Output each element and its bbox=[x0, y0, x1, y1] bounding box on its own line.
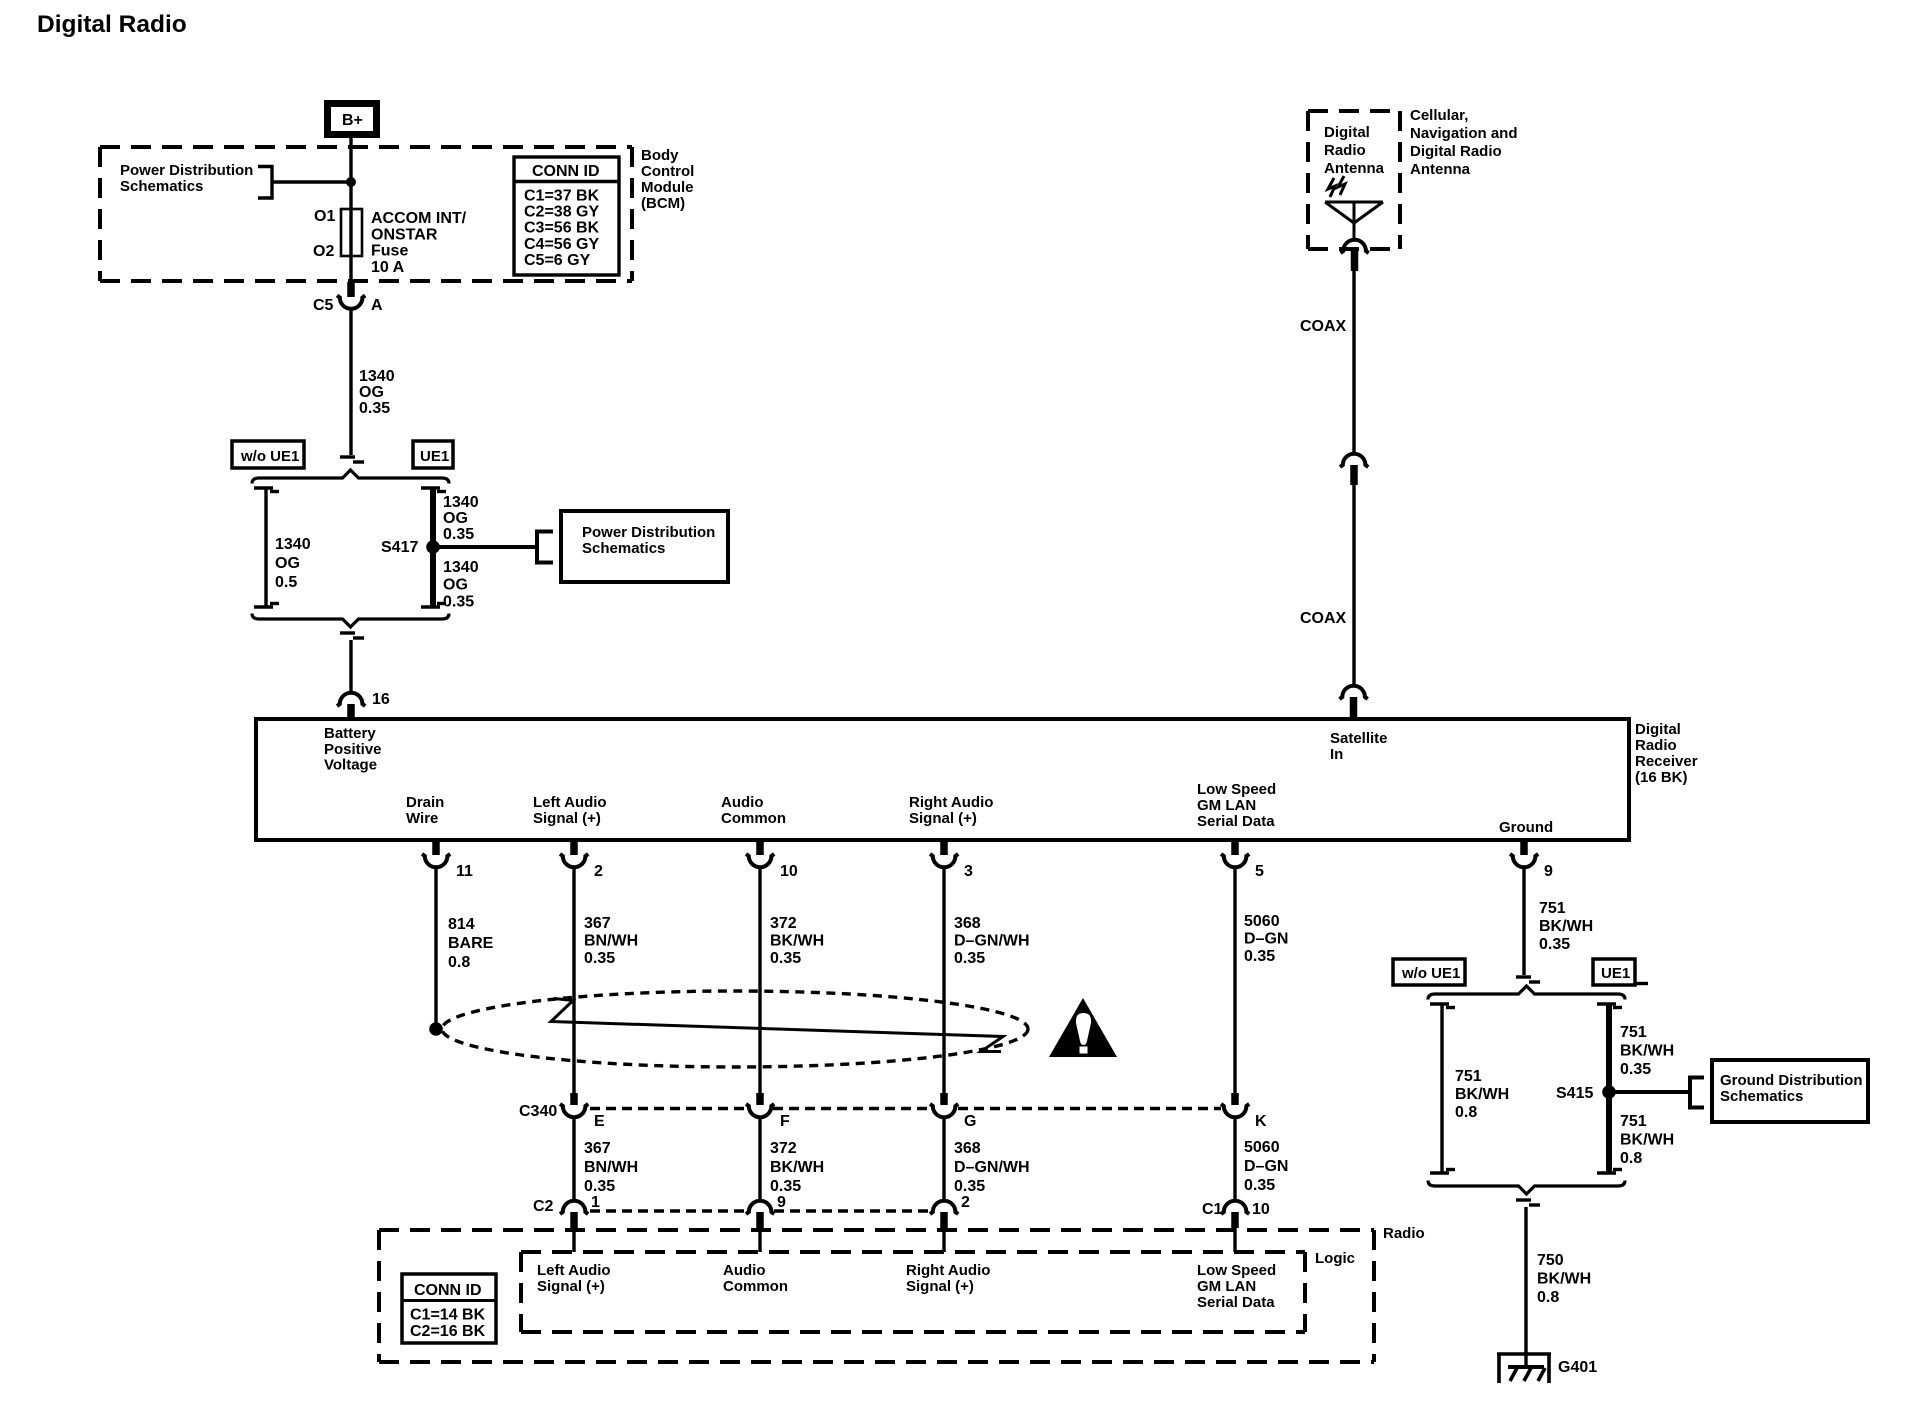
svg-text:Audio: Audio bbox=[723, 1262, 766, 1279]
svg-text:Signal (+): Signal (+) bbox=[909, 810, 977, 827]
svg-text:C2=16 BK: C2=16 BK bbox=[410, 1323, 486, 1340]
svg-text:O1: O1 bbox=[314, 208, 335, 225]
svg-text:D–GN/WH: D–GN/WH bbox=[954, 933, 1030, 950]
wire: S415 to Ground Distribution Schematics bbox=[1609, 1090, 1690, 1094]
svg-text:ACCOM INT/: ACCOM INT/ bbox=[371, 210, 467, 227]
svg-text:0.35: 0.35 bbox=[359, 400, 390, 417]
svg-text:5060: 5060 bbox=[1244, 913, 1280, 930]
branch UE1: wire 1340 OG 0.35 bbox=[421, 488, 446, 607]
wire label bbox=[770, 915, 824, 967]
svg-text:751: 751 bbox=[1455, 1068, 1482, 1085]
label: Audio Common (radio) bbox=[723, 1262, 788, 1295]
svg-text:Signal (+): Signal (+) bbox=[537, 1278, 605, 1295]
wire: S417 to Power Distribution Schematics bbox=[433, 545, 537, 549]
label: Left Audio Signal (+) bbox=[533, 794, 607, 827]
svg-text:ONSTAR: ONSTAR bbox=[371, 226, 438, 243]
svg-text:D–GN: D–GN bbox=[1244, 931, 1288, 948]
svg-text:OG: OG bbox=[359, 384, 384, 401]
svg-text:0.35: 0.35 bbox=[770, 950, 801, 967]
wire label bbox=[954, 1140, 1030, 1195]
svg-text:In: In bbox=[1330, 746, 1343, 763]
svg-text:Right Audio: Right Audio bbox=[906, 1262, 990, 1279]
svg-text:0.35: 0.35 bbox=[584, 1178, 615, 1195]
svg-text:Digital: Digital bbox=[1635, 721, 1681, 738]
branch w/o UE1: wire 751 BK/WH 0.8 bbox=[1430, 1004, 1455, 1173]
svg-text:Radio: Radio bbox=[1324, 142, 1366, 159]
svg-text:10 A: 10 A bbox=[371, 259, 405, 276]
svg-text:S415: S415 bbox=[1556, 1085, 1593, 1102]
svg-text:w/o UE1: w/o UE1 bbox=[240, 448, 299, 465]
connector pin 10 (receiver) bbox=[746, 840, 798, 880]
svg-text:Logic: Logic bbox=[1315, 1250, 1355, 1267]
svg-text:C2: C2 bbox=[533, 1198, 554, 1215]
splice S415 bbox=[1602, 1085, 1616, 1099]
label: Drain Wire bbox=[406, 794, 444, 827]
label: Right Audio Signal (+) bbox=[909, 794, 993, 827]
svg-text:0.35: 0.35 bbox=[1539, 936, 1570, 953]
svg-text:Navigation and: Navigation and bbox=[1410, 125, 1518, 142]
svg-text:5060: 5060 bbox=[1244, 1139, 1280, 1156]
svg-text:0.35: 0.35 bbox=[1244, 1177, 1275, 1194]
label: Low Speed GM LAN Serial Data (radio) bbox=[1197, 1262, 1276, 1311]
svg-text:w/o UE1: w/o UE1 bbox=[1401, 965, 1460, 982]
svg-text:(BCM): (BCM) bbox=[641, 195, 685, 212]
svg-text:Power Distribution: Power Distribution bbox=[120, 162, 253, 179]
svg-text:Module: Module bbox=[641, 179, 694, 196]
svg-text:368: 368 bbox=[954, 915, 981, 932]
svg-text:1340: 1340 bbox=[275, 536, 311, 553]
branch UE1: wire 751 BK/WH bbox=[1597, 1004, 1622, 1173]
connector pin 3 (receiver) bbox=[930, 840, 973, 880]
svg-text:C340: C340 bbox=[519, 1103, 557, 1120]
svg-text:Power Distribution: Power Distribution bbox=[582, 524, 715, 541]
wire into radio logic (x=760) bbox=[758, 1228, 761, 1252]
svg-text:Schematics: Schematics bbox=[1720, 1088, 1803, 1105]
svg-text:Control: Control bbox=[641, 163, 694, 180]
svg-text:C1=14 BK: C1=14 BK bbox=[410, 1307, 486, 1324]
svg-text:0.8: 0.8 bbox=[1455, 1104, 1477, 1121]
C340 dashed connector line bbox=[590, 1107, 1221, 1110]
svg-text:BK/WH: BK/WH bbox=[1620, 1043, 1674, 1060]
connector pin 9 (receiver) bbox=[1510, 840, 1553, 880]
wire label bbox=[954, 915, 1030, 967]
wire 368 D-GN/WH 0.35 (receiver to C340) bbox=[942, 868, 945, 1095]
connector ID table (BCM) bbox=[514, 157, 619, 275]
svg-text:1340: 1340 bbox=[443, 494, 479, 511]
svg-text:Schematics: Schematics bbox=[120, 178, 203, 195]
svg-text:0.35: 0.35 bbox=[443, 594, 474, 611]
svg-text:C1: C1 bbox=[1202, 1201, 1223, 1218]
svg-text:Digital Radio: Digital Radio bbox=[1410, 143, 1502, 160]
svg-text:750: 750 bbox=[1537, 1252, 1564, 1269]
svg-text:F: F bbox=[780, 1113, 790, 1130]
svg-text:Common: Common bbox=[723, 1278, 788, 1295]
reference box: Power Distribution Schematics bbox=[561, 511, 728, 582]
wire label bbox=[584, 915, 638, 967]
wire break hook below ground merge bbox=[1516, 1198, 1531, 1201]
svg-text:0.35: 0.35 bbox=[1620, 1061, 1651, 1078]
svg-text:9: 9 bbox=[1544, 863, 1553, 880]
svg-text:0.35: 0.35 bbox=[1244, 948, 1275, 965]
bracket to Ground Distribution Schematics box bbox=[1690, 1078, 1704, 1108]
svg-text:UE1: UE1 bbox=[1601, 965, 1630, 982]
svg-text:COAX: COAX bbox=[1300, 610, 1347, 627]
svg-text:Cellular,: Cellular, bbox=[1410, 107, 1468, 124]
svg-text:0.5: 0.5 bbox=[275, 574, 297, 591]
svg-text:3: 3 bbox=[964, 863, 973, 880]
wire label 5060 D-GN 0.35 bbox=[1244, 913, 1288, 965]
svg-text:G401: G401 bbox=[1558, 1359, 1597, 1376]
svg-text:UE1: UE1 bbox=[420, 448, 449, 465]
wire 368 (C340 to C2) bbox=[942, 1118, 945, 1201]
svg-text:751: 751 bbox=[1620, 1024, 1647, 1041]
Body Control Module (BCM) dashed outline bbox=[100, 147, 632, 281]
connector at Satellite In bbox=[1340, 686, 1368, 719]
Digital Radio Antenna dashed box bbox=[1308, 111, 1400, 249]
connector C5 pin A bbox=[313, 282, 383, 314]
wire label 1340 OG 0.35 bbox=[359, 368, 395, 417]
svg-text:Low Speed: Low Speed bbox=[1197, 1262, 1276, 1279]
svg-text:D–GN: D–GN bbox=[1244, 1158, 1288, 1175]
svg-text:814: 814 bbox=[448, 916, 475, 933]
svg-text:16: 16 bbox=[372, 691, 390, 708]
shield ellipse (dashed) bbox=[442, 991, 1028, 1067]
wire 5060 D-GN 0.35 (receiver to K) bbox=[1233, 868, 1236, 1095]
connector C340 pin G bbox=[930, 1093, 976, 1130]
coax wire (to receiver) bbox=[1352, 485, 1355, 685]
svg-text:B+: B+ bbox=[342, 112, 363, 129]
wire label bbox=[584, 1140, 638, 1195]
svg-text:BN/WH: BN/WH bbox=[584, 1159, 638, 1176]
svg-text:Body: Body bbox=[641, 147, 679, 164]
Radio dashed box bbox=[379, 1230, 1374, 1362]
wire label bbox=[770, 1140, 824, 1195]
svg-text:COAX: COAX bbox=[1300, 318, 1347, 335]
wire label 751 BK/WH 0.35 bbox=[1539, 900, 1593, 953]
svg-text:0.35: 0.35 bbox=[443, 526, 474, 543]
svg-text:Positive: Positive bbox=[324, 741, 382, 758]
svg-text:Low Speed: Low Speed bbox=[1197, 781, 1276, 798]
svg-text:751: 751 bbox=[1620, 1113, 1647, 1130]
svg-text:Left Audio: Left Audio bbox=[533, 794, 607, 811]
antenna connector bbox=[1341, 240, 1369, 271]
label: Digital Radio Antenna bbox=[1324, 124, 1385, 177]
wire label 5060 D-GN 0.35 bbox=[1244, 1139, 1288, 1194]
svg-text:Schematics: Schematics bbox=[582, 540, 665, 557]
wire label 751 BK/WH 0.35 (above S415) bbox=[1620, 1024, 1674, 1078]
svg-text:0.35: 0.35 bbox=[584, 950, 615, 967]
svg-text:Antenna: Antenna bbox=[1410, 161, 1471, 178]
svg-text:E: E bbox=[594, 1113, 605, 1130]
connector pin 11 (receiver) bbox=[422, 840, 473, 880]
svg-text:1340: 1340 bbox=[359, 368, 395, 385]
svg-text:BK/WH: BK/WH bbox=[1539, 918, 1593, 935]
svg-text:0.35: 0.35 bbox=[770, 1178, 801, 1195]
wire break hook (ground split) bbox=[1516, 975, 1531, 978]
wire to receiver pin 16 bbox=[349, 640, 352, 692]
wire 367 (C340 to C2) bbox=[572, 1118, 575, 1201]
label: Left Audio Signal (+) (radio) bbox=[537, 1262, 611, 1295]
svg-text:11: 11 bbox=[456, 863, 473, 880]
svg-text:A: A bbox=[371, 297, 383, 314]
svg-text:0.35: 0.35 bbox=[954, 1178, 985, 1195]
wire label 750 BK/WH 0.8 bbox=[1537, 1252, 1591, 1306]
svg-text:0.8: 0.8 bbox=[448, 954, 470, 971]
svg-text:1: 1 bbox=[591, 1194, 600, 1211]
wire 372 BK/WH 0.35 (receiver to C340) bbox=[758, 868, 761, 1095]
drain junction on shield bbox=[429, 1022, 443, 1036]
wire label 1340 OG 0.35 (below S417) bbox=[443, 559, 479, 611]
svg-text:10: 10 bbox=[780, 863, 798, 880]
svg-text:367: 367 bbox=[584, 915, 611, 932]
svg-text:GM LAN: GM LAN bbox=[1197, 1278, 1256, 1295]
svg-text:372: 372 bbox=[770, 1140, 797, 1157]
svg-text:OG: OG bbox=[443, 576, 468, 593]
svg-text:Wire: Wire bbox=[406, 810, 438, 827]
svg-text:OG: OG bbox=[443, 510, 468, 527]
wire label 1340 OG 0.35 (above S417) bbox=[443, 494, 479, 543]
connector C340 pin E bbox=[560, 1093, 605, 1130]
ground G401 bbox=[1497, 1354, 1597, 1383]
option tag UE1 (ground) bbox=[1593, 959, 1648, 985]
svg-text:0.35: 0.35 bbox=[954, 950, 985, 967]
warning triangle bbox=[1049, 998, 1117, 1057]
svg-text:5: 5 bbox=[1255, 863, 1264, 880]
svg-text:1340: 1340 bbox=[443, 559, 479, 576]
option split brace (top) bbox=[252, 470, 449, 484]
wire 751 BK/WH 0.35 from pin 9 bbox=[1522, 868, 1525, 976]
wire: B+ feed through BCM fuse bbox=[349, 138, 352, 284]
reference box: Ground Distribution Schematics bbox=[1712, 1060, 1868, 1122]
svg-text:C1=37 BK: C1=37 BK bbox=[524, 188, 600, 205]
svg-text:Digital: Digital bbox=[1324, 124, 1370, 141]
svg-text:2: 2 bbox=[961, 1194, 970, 1211]
Digital Radio Receiver box bbox=[256, 719, 1629, 840]
wire into radio logic (x=944) bbox=[942, 1228, 945, 1252]
svg-text:0.8: 0.8 bbox=[1537, 1289, 1559, 1306]
svg-text:368: 368 bbox=[954, 1140, 981, 1157]
option tag UE1 bbox=[413, 441, 453, 468]
svg-text:GM LAN: GM LAN bbox=[1197, 797, 1256, 814]
label: Cellular, Navigation and Digital Radio Antenna bbox=[1410, 107, 1518, 178]
label: Audio Common bbox=[721, 794, 786, 827]
svg-text:C5: C5 bbox=[313, 297, 334, 314]
bracket to Power Distribution Schematics box bbox=[537, 532, 553, 563]
connector C2 pin 2 bbox=[930, 1194, 970, 1228]
svg-text:Battery: Battery bbox=[324, 725, 376, 742]
label: Low Speed GM LAN Serial Data bbox=[1197, 781, 1276, 830]
svg-text:BK/WH: BK/WH bbox=[1455, 1086, 1509, 1103]
svg-text:CONN ID: CONN ID bbox=[414, 1282, 482, 1299]
svg-text:C5=6 GY: C5=6 GY bbox=[524, 252, 591, 269]
fuse: ACCOM INT/ONSTAR Fuse 10 A bbox=[341, 209, 362, 256]
svg-text:BK/WH: BK/WH bbox=[1620, 1132, 1674, 1149]
svg-text:367: 367 bbox=[584, 1140, 611, 1157]
connector pin 5 (receiver) bbox=[1221, 840, 1264, 880]
svg-text:Antenna: Antenna bbox=[1324, 160, 1385, 177]
option merge brace (bottom) bbox=[252, 614, 449, 628]
svg-text:Digital Radio: Digital Radio bbox=[37, 11, 187, 38]
inline coax connector bbox=[1340, 454, 1368, 485]
svg-text:0.8: 0.8 bbox=[1620, 1150, 1642, 1167]
label: Body Control Module (BCM) bbox=[641, 147, 694, 212]
wire 367 BN/WH 0.35 (receiver to C340) bbox=[572, 868, 575, 1095]
option merge brace (ground bottom) bbox=[1428, 1181, 1625, 1195]
label: Right Audio Signal (+) (radio) bbox=[906, 1262, 990, 1295]
wire into radio logic (x=574) bbox=[572, 1228, 575, 1252]
svg-text:BK/WH: BK/WH bbox=[770, 1159, 824, 1176]
svg-text:Left Audio: Left Audio bbox=[537, 1262, 611, 1279]
bracket to Power Distribution Schematics bbox=[258, 167, 272, 199]
svg-text:Radio: Radio bbox=[1383, 1225, 1425, 1242]
label: Digital Radio Receiver (16 BK) bbox=[1635, 721, 1698, 786]
svg-text:Right Audio: Right Audio bbox=[909, 794, 993, 811]
power symbol B+ bbox=[328, 104, 377, 135]
wire label 814 BARE 0.8 bbox=[448, 916, 494, 971]
wire break hook below merge bbox=[340, 631, 355, 634]
splice S417 bbox=[426, 540, 440, 554]
fuse value label bbox=[371, 210, 467, 276]
svg-text:Serial Data: Serial Data bbox=[1197, 813, 1275, 830]
svg-text:Signal (+): Signal (+) bbox=[906, 1278, 974, 1295]
svg-text:10: 10 bbox=[1252, 1201, 1270, 1218]
option tag w/o UE1 (ground) bbox=[1393, 959, 1465, 985]
label: Battery Positive Voltage bbox=[324, 725, 382, 774]
wire label 751 BK/WH 0.8 bbox=[1455, 1068, 1509, 1121]
option split brace (ground top) bbox=[1428, 986, 1625, 1000]
svg-text:D–GN/WH: D–GN/WH bbox=[954, 1159, 1030, 1176]
wire 5060 D-GN 0.35 (K to C1) bbox=[1233, 1118, 1236, 1201]
svg-text:BK/WH: BK/WH bbox=[1537, 1271, 1591, 1288]
wire label 1340 OG 0.5 bbox=[275, 536, 311, 591]
svg-text:372: 372 bbox=[770, 915, 797, 932]
wire: bracket to B+ wire bbox=[272, 180, 351, 183]
option tag w/o UE1 bbox=[232, 441, 304, 468]
svg-text:BK/WH: BK/WH bbox=[770, 933, 824, 950]
svg-text:Satellite: Satellite bbox=[1330, 730, 1388, 747]
junction on B+ wire bbox=[346, 177, 356, 187]
svg-text:(16 BK): (16 BK) bbox=[1635, 769, 1688, 786]
svg-text:Ground: Ground bbox=[1499, 819, 1553, 836]
svg-text:C3=56 BK: C3=56 BK bbox=[524, 220, 600, 237]
C2 dashed connector line bbox=[590, 1209, 930, 1212]
connector pin 16 bbox=[337, 691, 390, 719]
svg-text:2: 2 bbox=[594, 863, 603, 880]
wire break hook above split bbox=[340, 455, 355, 458]
svg-text:9: 9 bbox=[777, 1194, 786, 1211]
wire into radio logic (x=1235) bbox=[1233, 1228, 1236, 1252]
svg-text:BN/WH: BN/WH bbox=[584, 933, 638, 950]
svg-text:S417: S417 bbox=[381, 539, 418, 556]
svg-text:G: G bbox=[964, 1113, 976, 1130]
svg-text:Common: Common bbox=[721, 810, 786, 827]
svg-text:Receiver: Receiver bbox=[1635, 753, 1698, 770]
svg-text:751: 751 bbox=[1539, 900, 1566, 917]
Logic dashed box bbox=[521, 1252, 1305, 1332]
svg-text:Voltage: Voltage bbox=[324, 757, 377, 774]
connector C340 pin F bbox=[746, 1093, 790, 1130]
svg-text:Fuse: Fuse bbox=[371, 243, 408, 260]
svg-text:Audio: Audio bbox=[721, 794, 764, 811]
svg-text:C2=38 GY: C2=38 GY bbox=[524, 204, 599, 221]
connector C2 pin 1 bbox=[560, 1194, 600, 1228]
wire 814 BARE 0.8 (drain) bbox=[434, 868, 437, 1024]
svg-text:Radio: Radio bbox=[1635, 737, 1677, 754]
svg-text:C4=56 GY: C4=56 GY bbox=[524, 236, 599, 253]
connector pin 2 (receiver) bbox=[560, 840, 603, 880]
svg-text:Drain: Drain bbox=[406, 794, 444, 811]
branch w/o UE1: wire 1340 OG 0.5 bbox=[254, 488, 279, 607]
connector ID table (radio) bbox=[402, 1274, 496, 1343]
wire 750 BK/WH 0.8 to G401 bbox=[1524, 1207, 1527, 1367]
connector C2 pin 9 bbox=[746, 1194, 786, 1228]
svg-text:OG: OG bbox=[275, 555, 300, 572]
wire 1340 OG 0.35 from C5 bbox=[349, 309, 352, 455]
svg-text:CONN ID: CONN ID bbox=[532, 163, 600, 180]
svg-text:Serial Data: Serial Data bbox=[1197, 1294, 1275, 1311]
svg-text:O2: O2 bbox=[313, 243, 334, 260]
connector C340 pin K bbox=[1221, 1093, 1267, 1130]
antenna symbol bbox=[1325, 176, 1383, 240]
label: Power Distribution Schematics (in BCM) bbox=[120, 162, 253, 195]
coax wire (antenna to inline connector) bbox=[1352, 271, 1355, 453]
svg-text:Signal (+): Signal (+) bbox=[533, 810, 601, 827]
svg-text:Ground Distribution: Ground Distribution bbox=[1720, 1072, 1862, 1089]
label: Satellite In bbox=[1330, 730, 1388, 763]
svg-text:BARE: BARE bbox=[448, 935, 494, 952]
connector C1 pin 10 bbox=[1202, 1201, 1270, 1228]
svg-text:K: K bbox=[1255, 1113, 1267, 1130]
shield drain line bbox=[551, 999, 1003, 1052]
wire label 751 BK/WH 0.8 (below S415) bbox=[1620, 1113, 1674, 1167]
wire 372 (C340 to C2) bbox=[758, 1118, 761, 1201]
